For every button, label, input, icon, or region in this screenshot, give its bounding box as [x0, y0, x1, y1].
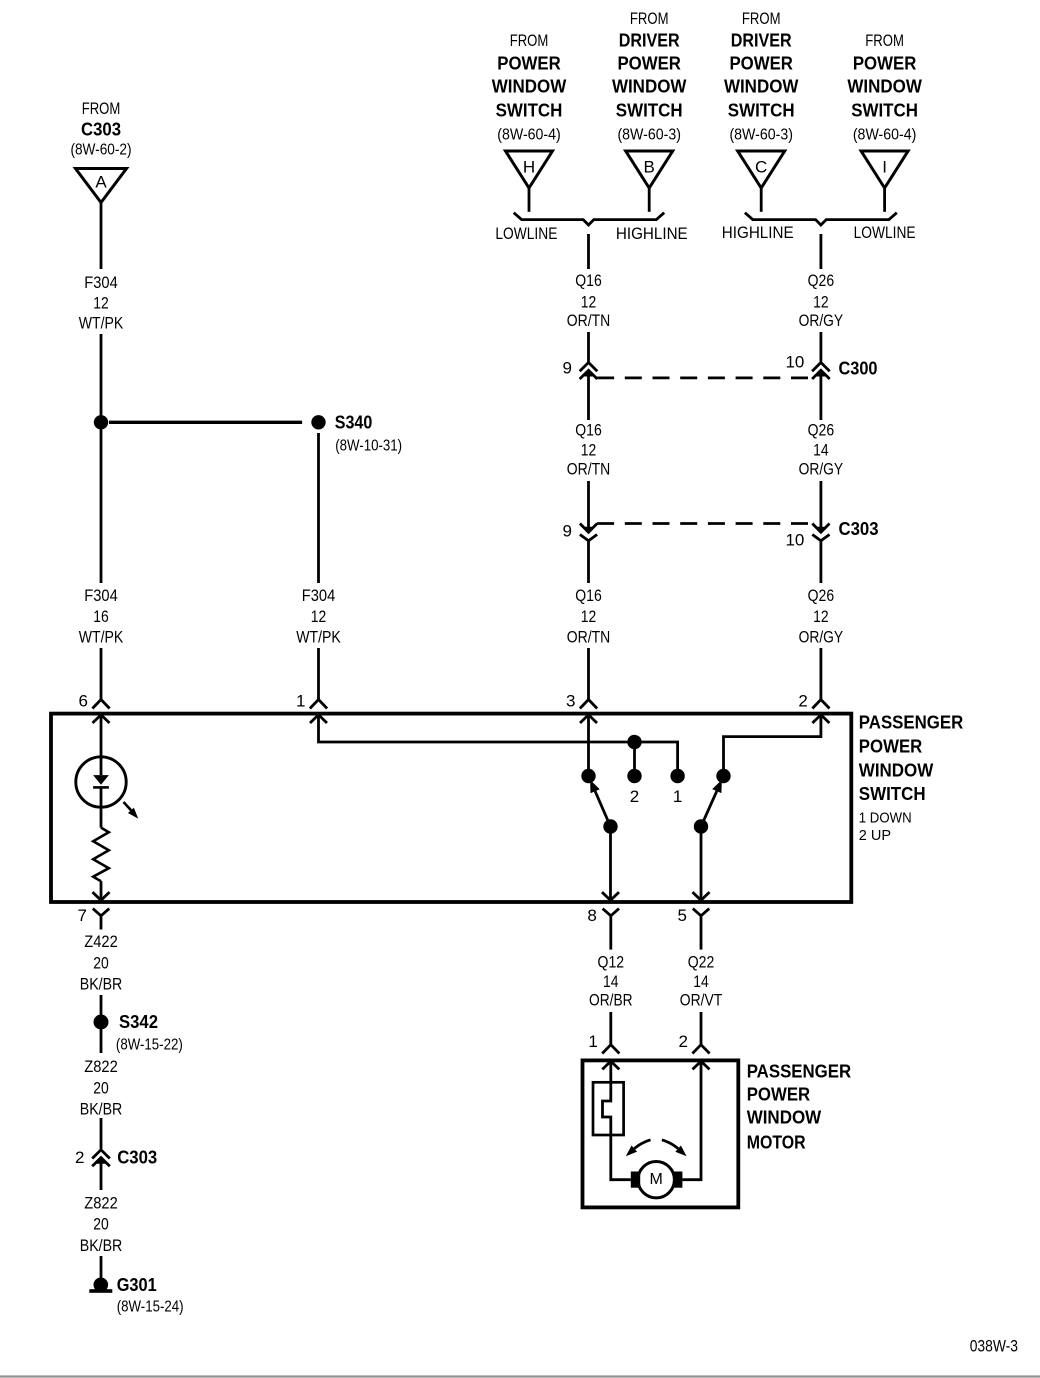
svg-text:MOTOR: MOTOR [747, 1133, 806, 1153]
svg-text:WINDOW: WINDOW [724, 77, 799, 97]
splice S340 [311, 412, 402, 454]
label wire Q16 12 OR/TN upper [567, 271, 611, 330]
svg-text:H: H [523, 157, 535, 176]
svg-text:BK/BR: BK/BR [80, 974, 123, 993]
svg-text:C: C [755, 157, 767, 176]
label wire Z822 20 BK/BR upper [80, 1057, 123, 1118]
svg-text:OR/GY: OR/GY [799, 311, 844, 330]
svg-text:(8W-15-24): (8W-15-24) [117, 1298, 184, 1315]
switch pin 5 [678, 906, 710, 950]
wire Q16 below C303 [587, 541, 590, 583]
svg-text:(8W-15-22): (8W-15-22) [116, 1036, 183, 1053]
label wire Q26 14 OR/GY middle [799, 421, 844, 479]
junction dot on feed [627, 735, 641, 749]
switch pin 1 [296, 692, 327, 724]
svg-text:FROM: FROM [630, 9, 669, 28]
connector C303 pin 10 half [785, 524, 829, 550]
wire Q26 to switch pin 2 [820, 648, 823, 700]
svg-text:12: 12 [581, 293, 597, 312]
wire pin 3 to contact [587, 715, 590, 770]
svg-text:Q26: Q26 [808, 586, 835, 605]
svg-text:Q16: Q16 [575, 586, 602, 605]
svg-text:SWITCH: SWITCH [851, 101, 918, 121]
svg-text:12: 12 [93, 294, 109, 313]
wire Q12 to motor pin 1 [609, 1012, 612, 1045]
svg-text:OR/GY: OR/GY [799, 628, 844, 647]
label wire Z822 20 BK/BR lower [80, 1194, 123, 1255]
wire motor pin 2 side [682, 1061, 701, 1180]
label wire Q16 12 OR/TN lower [567, 586, 611, 647]
motor pin 2 [679, 1032, 710, 1069]
dashed connector line C303 [597, 522, 812, 525]
svg-text:S340: S340 [335, 412, 373, 432]
wire Q22 to motor pin 2 [700, 1012, 703, 1045]
svg-text:POWER: POWER [497, 54, 561, 74]
label wire Q12 14 OR/BR [589, 953, 633, 1010]
switch arm right [694, 780, 722, 834]
connector C303 pin 2 [75, 1148, 157, 1168]
contact dot pin3 side [581, 769, 595, 783]
contact dot pin2 side [716, 769, 730, 783]
svg-text:C303: C303 [81, 120, 121, 140]
svg-text:Z822: Z822 [84, 1057, 118, 1076]
svg-text:WINDOW: WINDOW [847, 77, 922, 97]
svg-text:Z422: Z422 [84, 932, 118, 951]
svg-text:Q26: Q26 [808, 271, 835, 290]
wire lamp to resistor [100, 787, 103, 827]
svg-text:1: 1 [588, 1032, 597, 1051]
svg-text:SWITCH: SWITCH [496, 101, 563, 121]
svg-text:20: 20 [93, 1079, 109, 1098]
switch pin 6 [79, 692, 110, 724]
label wire Q26 12 OR/GY upper [799, 271, 844, 330]
wire Q16 below brace [587, 234, 590, 269]
switch arm left [590, 780, 618, 834]
label wire F304 12 WT/PK branch [296, 586, 341, 647]
svg-text:2: 2 [75, 1148, 84, 1167]
svg-text:C303: C303 [839, 519, 879, 539]
header label FROM POWER WINDOW SWITCH (8W-60-4) [492, 31, 567, 144]
dashed connector line C300 [597, 376, 812, 379]
connector triangle B [626, 151, 673, 188]
lamp pointer arrow [124, 802, 139, 819]
label wire Z422 20 BK/BR [80, 932, 123, 993]
label wire F304 12 WT/PK [79, 273, 124, 333]
wire below triangle H [528, 188, 531, 212]
svg-text:FROM: FROM [510, 31, 549, 50]
svg-text:(8W-10-31): (8W-10-31) [335, 437, 402, 454]
contact dot 1 [670, 769, 684, 806]
svg-text:WT/PK: WT/PK [79, 628, 124, 647]
svg-text:(8W-60-4): (8W-60-4) [853, 127, 917, 144]
svg-text:POWER: POWER [617, 54, 681, 74]
ground G301 [89, 1275, 183, 1316]
switch pin 2 [798, 692, 829, 724]
wire Q26 to connector C300 [820, 332, 823, 362]
svg-text:HIGHLINE: HIGHLINE [616, 224, 688, 243]
svg-text:OR/TN: OR/TN [567, 460, 611, 479]
wire Q26 below C300 [820, 373, 823, 420]
circuit breaker [593, 1061, 631, 1180]
wire branch to switch pin 1 [317, 648, 320, 700]
svg-text:9: 9 [563, 522, 572, 541]
wire pin 2 feed [724, 715, 821, 770]
svg-text:10: 10 [785, 531, 804, 550]
svg-text:BK/BR: BK/BR [80, 1236, 123, 1255]
svg-text:FROM: FROM [742, 9, 781, 28]
svg-text:14: 14 [693, 972, 709, 991]
svg-text:Q12: Q12 [598, 953, 625, 972]
svg-text:12: 12 [581, 607, 597, 626]
wire Z822 to connector C303 [100, 1118, 103, 1149]
svg-text:POWER: POWER [853, 54, 917, 74]
svg-text:M: M [650, 1171, 663, 1188]
option brace HIGHLINE/LOWLINE right [722, 213, 916, 243]
svg-text:(8W-60-3): (8W-60-3) [617, 127, 681, 144]
svg-text:8: 8 [587, 906, 596, 925]
rotation arrow left [626, 1140, 651, 1157]
label wire Q16 12 OR/TN middle [567, 421, 611, 479]
svg-text:1: 1 [296, 692, 305, 711]
stub to contact 2 [633, 742, 636, 770]
passenger power window motor box [583, 1060, 739, 1207]
svg-text:(8W-60-3): (8W-60-3) [729, 127, 793, 144]
svg-text:12: 12 [813, 607, 829, 626]
svg-text:12: 12 [311, 607, 327, 626]
svg-text:B: B [644, 157, 655, 176]
connector C300 pin 9 half [563, 358, 598, 379]
svg-text:WT/PK: WT/PK [79, 314, 124, 333]
svg-text:5: 5 [678, 906, 687, 925]
svg-text:FROM: FROM [82, 99, 121, 118]
connector triangle I [861, 151, 908, 188]
svg-text:12: 12 [813, 293, 829, 312]
svg-text:Q16: Q16 [575, 421, 602, 440]
svg-text:LOWLINE: LOWLINE [854, 223, 916, 242]
svg-text:SWITCH: SWITCH [728, 101, 795, 121]
svg-text:1: 1 [673, 787, 682, 806]
wire below triangle C [760, 188, 763, 212]
wire pin 1 feed [319, 715, 678, 770]
label wire F304 16 WT/PK [79, 586, 124, 647]
svg-text:F304: F304 [84, 273, 118, 292]
connector C300 pin 10 half [785, 353, 829, 379]
svg-text:OR/TN: OR/TN [567, 628, 611, 647]
wire F304 to splice S340 [100, 334, 103, 422]
svg-text:OR/BR: OR/BR [589, 991, 633, 1010]
footer rule [0, 1375, 1040, 1377]
passenger power window switch box [51, 714, 851, 902]
svg-text:10: 10 [785, 353, 804, 372]
svg-text:FROM: FROM [865, 31, 904, 50]
svg-text:(8W-60-4): (8W-60-4) [497, 127, 561, 144]
svg-text:2: 2 [679, 1032, 688, 1051]
wire below C303 [100, 1160, 103, 1190]
wire Q26 to connector C303 [820, 481, 823, 530]
splice junction dot [94, 415, 108, 429]
wire splice crossover [109, 421, 302, 424]
svg-text:C303: C303 [117, 1148, 157, 1168]
svg-text:20: 20 [93, 953, 109, 972]
illumination LED lamp [76, 757, 126, 807]
svg-text:POWER: POWER [747, 1084, 811, 1104]
motor pin 1 [588, 1032, 619, 1069]
connector C303 pin 9 half [563, 522, 598, 541]
svg-text:Z822: Z822 [84, 1194, 118, 1213]
wire Q16 to connector C303 [587, 481, 590, 530]
svg-text:16: 16 [93, 607, 109, 626]
wire resistor to pin 7 [93, 881, 110, 900]
svg-text:HIGHLINE: HIGHLINE [722, 223, 794, 242]
svg-text:PASSENGER: PASSENGER [859, 713, 964, 733]
label wire Q26 12 OR/GY lower [799, 586, 844, 647]
svg-text:(8W-60-2): (8W-60-2) [70, 142, 131, 159]
label wire Q22 14 OR/VT [680, 953, 723, 1010]
header label FROM DRIVER POWER WINDOW SWITCH (8W-60-3) right [724, 9, 799, 144]
wire left arm to pin 8 [602, 827, 619, 901]
splice S342 [94, 1012, 183, 1053]
svg-text:S342: S342 [119, 1012, 158, 1032]
svg-text:POWER: POWER [859, 736, 923, 756]
wire S340 branch down [317, 433, 320, 583]
svg-text:DRIVER: DRIVER [619, 31, 680, 51]
svg-text:Q26: Q26 [808, 421, 835, 440]
svg-text:SWITCH: SWITCH [859, 784, 926, 804]
box label PASSENGER POWER WINDOW MOTOR [747, 1061, 852, 1152]
switch pin 3 [566, 692, 597, 724]
svg-text:1 DOWN: 1 DOWN [859, 809, 912, 826]
switch pin 8 [587, 906, 619, 950]
svg-text:038W-3: 038W-3 [970, 1337, 1018, 1356]
svg-text:LOWLINE: LOWLINE [495, 224, 557, 243]
resistor [93, 828, 109, 882]
svg-text:20: 20 [93, 1215, 109, 1234]
connector triangle C [738, 151, 785, 188]
svg-text:14: 14 [813, 441, 829, 460]
wire from triangle A [100, 203, 103, 270]
svg-text:OR/TN: OR/TN [567, 311, 611, 330]
svg-text:7: 7 [78, 906, 87, 925]
wire below triangle B [648, 188, 651, 212]
svg-text:WINDOW: WINDOW [492, 77, 567, 97]
svg-text:2: 2 [630, 787, 639, 806]
contact dot 2 [627, 769, 641, 806]
svg-text:I: I [882, 157, 887, 176]
svg-text:A: A [95, 173, 107, 192]
option brace LOWLINE/HIGHLINE left [495, 213, 687, 243]
svg-text:G301: G301 [117, 1275, 157, 1295]
svg-text:WT/PK: WT/PK [296, 628, 341, 647]
wire Z822 to ground [100, 1256, 103, 1278]
wire left F304 lower [100, 430, 103, 584]
wire F304 to switch pin 6 [100, 648, 103, 700]
svg-text:2 UP: 2 UP [859, 827, 891, 844]
connector triangle A [76, 169, 127, 203]
svg-text:OR/VT: OR/VT [680, 991, 723, 1010]
svg-text:WINDOW: WINDOW [612, 77, 687, 97]
svg-text:9: 9 [563, 358, 572, 377]
svg-text:F304: F304 [302, 586, 336, 605]
box label PASSENGER POWER WINDOW SWITCH [859, 713, 964, 845]
rotation arrow right [662, 1140, 687, 1157]
header label FROM POWER WINDOW SWITCH (8W-60-4) right [847, 31, 922, 144]
svg-text:WINDOW: WINDOW [747, 1108, 822, 1128]
svg-text:F304: F304 [84, 586, 118, 605]
wire Q26 below C303 [820, 541, 823, 583]
wire Q26 below brace [820, 234, 823, 269]
wire pin 6 to lamp [100, 715, 103, 775]
svg-text:SWITCH: SWITCH [616, 101, 683, 121]
svg-text:BK/BR: BK/BR [80, 1100, 123, 1119]
header label FROM DRIVER POWER WINDOW SWITCH (8W-60-3) [612, 9, 687, 144]
svg-text:Q16: Q16 [575, 271, 602, 290]
wire right arm to pin 5 [693, 827, 710, 901]
svg-text:PASSENGER: PASSENGER [747, 1061, 852, 1081]
wire Q16 below C300 [587, 373, 590, 420]
svg-text:DRIVER: DRIVER [731, 31, 792, 51]
wire Z422 to splice S342 [100, 995, 103, 1053]
switch pin 7 [78, 906, 110, 930]
wire Q16 to switch pin 3 [587, 648, 590, 700]
wire Q16 to connector C300 [587, 332, 590, 362]
svg-text:6: 6 [79, 692, 88, 711]
motor M1 [631, 1162, 683, 1198]
svg-text:WINDOW: WINDOW [859, 760, 934, 780]
connector triangle H [506, 151, 553, 188]
svg-text:14: 14 [603, 972, 619, 991]
svg-text:C300: C300 [839, 358, 878, 378]
svg-text:OR/GY: OR/GY [799, 460, 844, 479]
svg-text:POWER: POWER [729, 54, 793, 74]
svg-text:3: 3 [566, 692, 575, 711]
header label FROM C303 (8W-60-2) [70, 99, 131, 159]
svg-text:2: 2 [798, 692, 807, 711]
wire below triangle I [883, 188, 886, 212]
svg-text:Q22: Q22 [688, 953, 715, 972]
svg-text:12: 12 [581, 441, 597, 460]
